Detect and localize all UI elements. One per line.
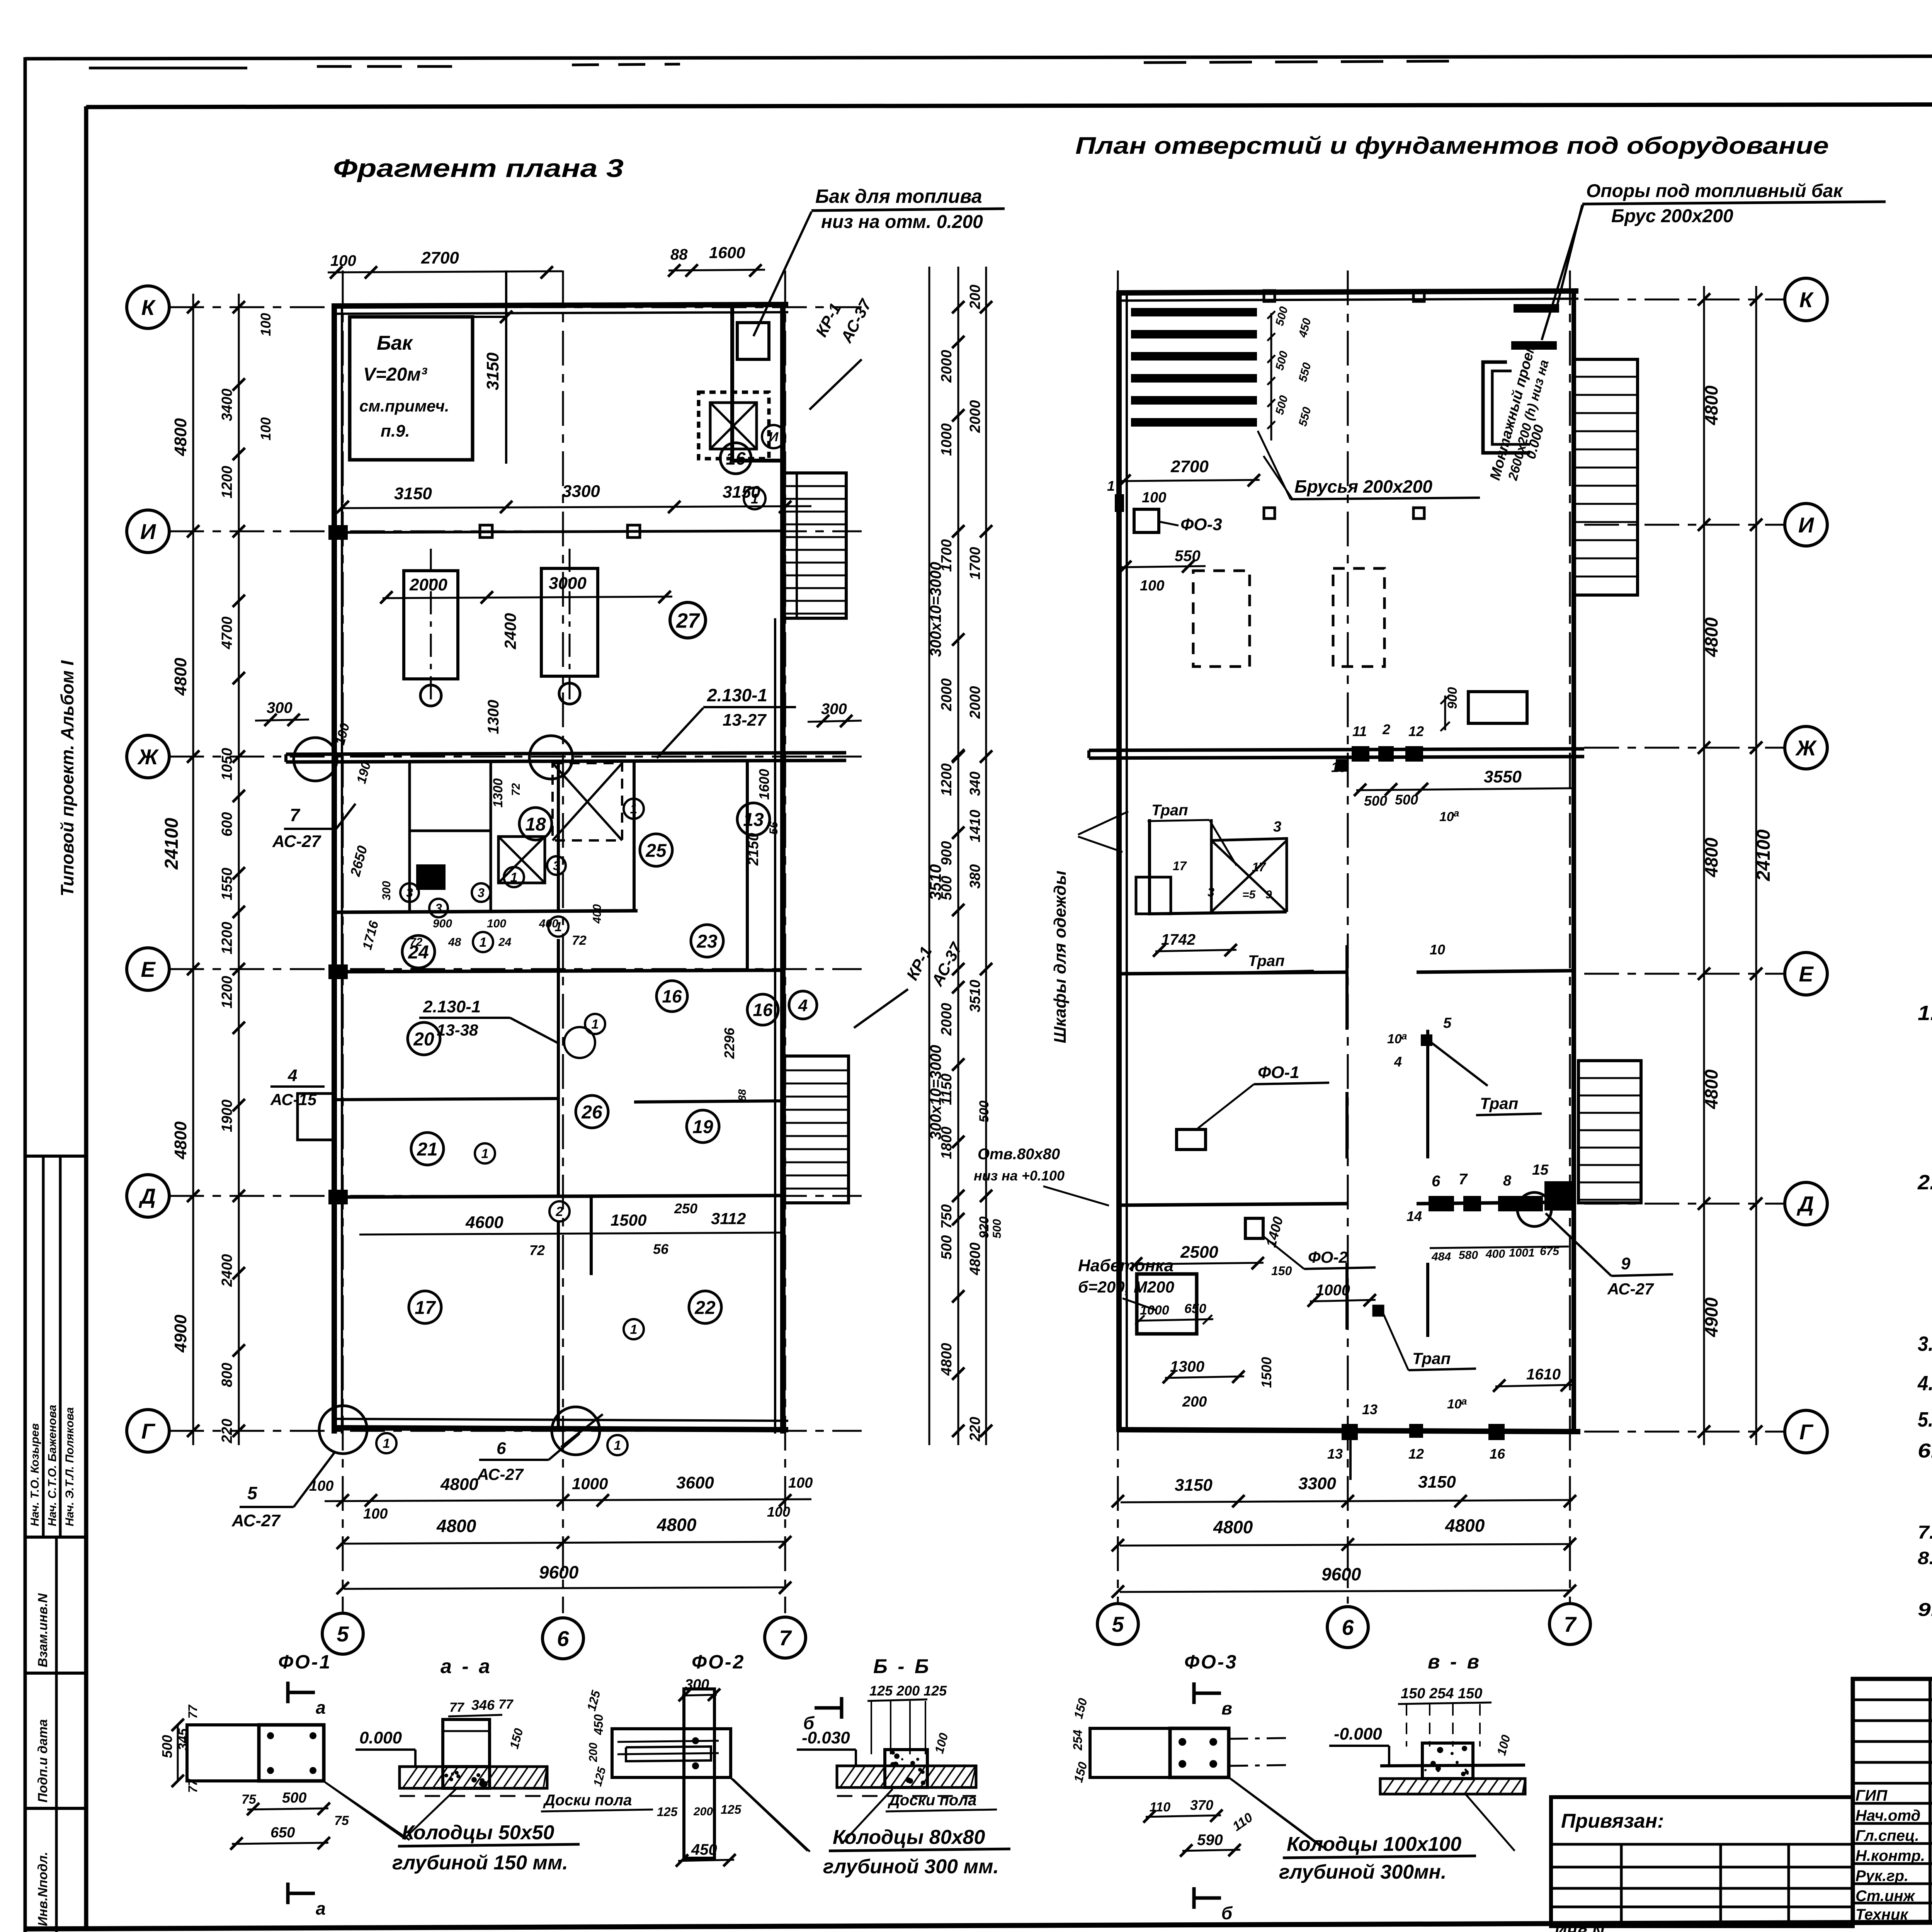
svg-text:500: 500 xyxy=(159,1735,175,1758)
svg-text:б: б xyxy=(1221,1903,1233,1923)
top dim row xyxy=(328,271,562,272)
svg-text:100: 100 xyxy=(487,917,506,930)
svg-text:3: 3 xyxy=(435,901,442,915)
svg-text:1000: 1000 xyxy=(939,423,955,456)
svg-text:25: 25 xyxy=(645,840,667,861)
svg-text:100: 100 xyxy=(258,417,274,440)
svg-text:б: б xyxy=(803,1713,815,1733)
svg-text:ФО-3: ФО-3 xyxy=(1184,1651,1238,1673)
svg-text:=5: =5 xyxy=(1242,888,1256,901)
svg-text:4800: 4800 xyxy=(1213,1517,1253,1537)
svg-text:254: 254 xyxy=(1071,1730,1085,1751)
title block xyxy=(1853,1679,1932,1922)
svg-text:Доски пола: Доски пола xyxy=(888,1792,976,1809)
right plan right-side chains xyxy=(1703,286,1705,1445)
svg-text:низ на +0.100: низ на +0.100 xyxy=(974,1168,1065,1184)
svg-text:125 200 125: 125 200 125 xyxy=(869,1683,947,1699)
svg-text:АС-27: АС-27 xyxy=(477,1465,524,1483)
black wall segments with labels 11 2 12 xyxy=(1353,747,1368,760)
svg-text:15: 15 xyxy=(1532,1162,1549,1178)
svg-text:1200: 1200 xyxy=(219,466,235,498)
svg-text:2: 2 xyxy=(556,1204,563,1219)
svg-text:Ж: Ж xyxy=(137,745,159,769)
500 500 3550 dims xyxy=(1356,788,1573,790)
svg-text:400: 400 xyxy=(591,904,604,924)
svg-text:Бак для топлива: Бак для топлива xyxy=(815,185,982,207)
svg-text:24100: 24100 xyxy=(162,818,182,870)
bottom axis circles 5 6 7 xyxy=(322,1613,363,1654)
svg-text:13: 13 xyxy=(743,810,764,830)
svg-text:4800: 4800 xyxy=(1701,1069,1721,1109)
svg-text:2700: 2700 xyxy=(421,248,459,267)
inner frame top xyxy=(86,104,1932,107)
svg-text:Брус 200х200: Брус 200х200 xyxy=(1611,206,1733,226)
svg-text:3600: 3600 xyxy=(676,1473,714,1492)
опоры bars xyxy=(1515,305,1558,311)
svg-text:920: 920 xyxy=(977,1216,992,1238)
svg-text:4900: 4900 xyxy=(1701,1297,1721,1337)
vertical partition x3486 xyxy=(1345,945,1349,1030)
svg-text:1: 1 xyxy=(481,1146,489,1161)
hatched opening walls xyxy=(699,392,769,459)
svg-text:ФО-2: ФО-2 xyxy=(1308,1248,1348,1266)
svg-text:глубиной 150 мм.: глубиной 150 мм. xyxy=(392,1852,568,1874)
svg-text:1: 1 xyxy=(614,1438,621,1453)
svg-text:К: К xyxy=(1799,287,1814,312)
svg-text:14: 14 xyxy=(1406,1208,1422,1224)
svg-text:a: a xyxy=(1461,1395,1467,1407)
svg-text:300х10=3000: 300х10=3000 xyxy=(927,562,944,657)
svg-text:И: И xyxy=(769,430,779,444)
privyazan box xyxy=(1551,1797,1853,1926)
svg-text:9: 9 xyxy=(1621,1254,1631,1273)
svg-text:АС-27: АС-27 xyxy=(272,832,321,851)
svg-text:5. Работать совместно с ли: 5. Работать совместно с листом АС-4. xyxy=(1918,1408,1932,1431)
svg-text:3150: 3150 xyxy=(1175,1476,1213,1495)
svg-text:Нач.отд: Нач.отд xyxy=(1855,1807,1920,1824)
svg-text:2296: 2296 xyxy=(721,1027,737,1059)
svg-text:17: 17 xyxy=(1173,859,1187,873)
svg-text:1742: 1742 xyxy=(1161,931,1196,948)
svg-text:900: 900 xyxy=(433,917,452,930)
boiler 2 xyxy=(541,568,598,676)
И axis wall stubs xyxy=(334,531,783,532)
svg-text:500: 500 xyxy=(1364,793,1387,809)
left plan middle stairs xyxy=(784,1056,849,1203)
svg-text:500: 500 xyxy=(1395,792,1418,808)
svg-text:580: 580 xyxy=(1459,1249,1478,1262)
svg-text:20: 20 xyxy=(413,1029,434,1049)
2700 dim xyxy=(1121,480,1260,481)
svg-text:8: 8 xyxy=(1503,1173,1512,1189)
svg-text:глубиной 300 мм.: глубиной 300 мм. xyxy=(823,1855,999,1878)
svg-text:Гл.спец.: Гл.спец. xyxy=(1855,1827,1919,1844)
svg-text:75: 75 xyxy=(241,1792,257,1807)
svg-text:10: 10 xyxy=(1447,1397,1462,1412)
svg-text:300: 300 xyxy=(267,699,293,716)
shkafy area rooms xyxy=(1150,819,1287,914)
svg-text:0.000: 0.000 xyxy=(359,1728,402,1747)
svg-text:2.130-1: 2.130-1 xyxy=(707,685,767,705)
bottom dims left plan xyxy=(325,1499,811,1501)
svg-text:2000: 2000 xyxy=(967,686,983,719)
svg-text:23: 23 xyxy=(696,931,718,952)
svg-text:3: 3 xyxy=(1207,885,1214,899)
bottom dims right plan xyxy=(1121,1500,1573,1502)
svg-text:72: 72 xyxy=(529,1242,545,1258)
cross hatch opening at Ж xyxy=(553,763,622,840)
svg-text:24: 24 xyxy=(498,936,512,949)
svg-text:1200: 1200 xyxy=(219,922,235,954)
svg-text:1001: 1001 xyxy=(1509,1247,1535,1259)
svg-text:650: 650 xyxy=(1184,1301,1206,1316)
svg-text:48: 48 xyxy=(448,936,461,949)
svg-text:3: 3 xyxy=(406,886,413,900)
room 27 xyxy=(670,602,706,638)
left plan top stairs xyxy=(784,473,846,618)
right plan top stairs xyxy=(1574,359,1638,595)
svg-text:400: 400 xyxy=(1485,1248,1505,1260)
svg-text:1: 1 xyxy=(510,870,518,885)
svg-text:9600: 9600 xyxy=(539,1562,579,1582)
svg-text:88: 88 xyxy=(736,1089,748,1101)
svg-text:200: 200 xyxy=(587,1743,600,1762)
interior partitions below Ж xyxy=(557,762,560,912)
batten dim ticks xyxy=(1270,313,1272,440)
svg-text:100: 100 xyxy=(330,252,356,269)
svg-text:1: 1 xyxy=(480,935,487,950)
right-side dim chains of left plan xyxy=(929,267,930,1445)
svg-text:3150: 3150 xyxy=(394,484,432,503)
svg-text:1410: 1410 xyxy=(967,810,983,842)
svg-text:27: 27 xyxy=(676,609,701,632)
svg-text:18: 18 xyxy=(525,814,546,835)
svg-text:ФО-2: ФО-2 xyxy=(692,1651,745,1673)
svg-text:5: 5 xyxy=(1112,1612,1124,1636)
svg-text:4600: 4600 xyxy=(465,1213,503,1232)
black segments row 6 7 8 15 xyxy=(1430,1197,1453,1210)
svg-text:6: 6 xyxy=(1432,1173,1440,1190)
svg-text:17: 17 xyxy=(1252,860,1267,874)
svg-text:1500: 1500 xyxy=(611,1211,646,1229)
svg-text:100: 100 xyxy=(788,1475,813,1491)
right plan building xyxy=(1116,291,1122,1432)
svg-text:1: 1 xyxy=(383,1436,390,1451)
svg-text:3300: 3300 xyxy=(562,482,600,501)
stamp boxes xyxy=(25,1155,86,1158)
svg-text:И: И xyxy=(140,519,156,544)
svg-text:56: 56 xyxy=(653,1241,669,1257)
svg-text:100: 100 xyxy=(258,313,274,336)
svg-text:125: 125 xyxy=(721,1803,742,1816)
svg-text:2000: 2000 xyxy=(409,575,447,594)
svg-text:2700: 2700 xyxy=(1170,457,1209,476)
svg-text:7. В гардеробной установить шк: 7. В гардеробной установить шкафы по ГОС… xyxy=(1918,1522,1932,1543)
svg-text:6: 6 xyxy=(497,1439,506,1458)
svg-text:22: 22 xyxy=(694,1298,716,1318)
svg-text:Е: Е xyxy=(141,957,156,981)
svg-text:АС-27: АС-27 xyxy=(1607,1280,1654,1298)
Бак box xyxy=(350,317,473,460)
svg-text:3510: 3510 xyxy=(967,980,983,1012)
svg-text:100: 100 xyxy=(363,1506,388,1522)
svg-text:Типовой проект. Альбом I: Типовой проект. Альбом I xyxy=(57,660,77,896)
svg-text:4: 4 xyxy=(287,1066,297,1085)
svg-text:4800: 4800 xyxy=(436,1516,476,1536)
svg-text:900: 900 xyxy=(939,841,955,866)
svg-text:в: в xyxy=(1221,1698,1232,1718)
svg-text:1000: 1000 xyxy=(572,1475,608,1493)
svg-text:1200: 1200 xyxy=(939,763,955,796)
svg-text:2500: 2500 xyxy=(1180,1243,1218,1262)
svg-text:см.примеч.: см.примеч. xyxy=(359,397,449,415)
svg-text:340: 340 xyxy=(967,772,983,796)
svg-text:100: 100 xyxy=(767,1504,790,1520)
svg-text:2000: 2000 xyxy=(967,400,983,433)
svg-text:220: 220 xyxy=(219,1419,235,1444)
svg-text:200: 200 xyxy=(693,1805,713,1818)
svg-text:800: 800 xyxy=(219,1363,235,1387)
svg-text:a: a xyxy=(1454,807,1459,819)
svg-text:5: 5 xyxy=(1443,1015,1452,1031)
svg-text:1: 1 xyxy=(630,1322,638,1337)
svg-text:200: 200 xyxy=(1182,1394,1207,1410)
svg-text:4800: 4800 xyxy=(440,1475,478,1494)
svg-text:600: 600 xyxy=(219,812,235,837)
svg-text:Доски пола: Доски пола xyxy=(543,1792,632,1809)
svg-text:88: 88 xyxy=(670,246,688,263)
svg-text:3150: 3150 xyxy=(483,352,502,390)
svg-text:7: 7 xyxy=(779,1626,792,1650)
svg-text:500: 500 xyxy=(939,1235,955,1260)
svg-text:1300: 1300 xyxy=(491,778,505,808)
svg-text:4800: 4800 xyxy=(967,1242,983,1276)
svg-text:п.9.: п.9. xyxy=(381,422,410,440)
svg-text:3112: 3112 xyxy=(711,1209,746,1228)
svg-text:380: 380 xyxy=(967,864,983,889)
svg-text:1000: 1000 xyxy=(1316,1282,1350,1299)
svg-text:2000: 2000 xyxy=(939,350,955,383)
svg-text:9600: 9600 xyxy=(1321,1564,1361,1584)
svg-text:V=20м³: V=20м³ xyxy=(363,364,428,385)
svg-text:а: а xyxy=(316,1898,326,1918)
svg-text:Подп.и дата: Подп.и дата xyxy=(36,1719,50,1803)
svg-text:Б - Б: Б - Б xyxy=(873,1655,931,1678)
left plan vertical axes 5 6 7 xyxy=(342,270,344,1613)
right plan vertical axes xyxy=(1117,270,1119,1604)
svg-text:Шкафы для одежды: Шкафы для одежды xyxy=(1051,871,1070,1043)
E axis walls right plan xyxy=(1119,972,1347,974)
svg-text:2: 2 xyxy=(1382,721,1390,737)
svg-text:11: 11 xyxy=(1352,723,1367,739)
frame bottom thick xyxy=(25,1920,1932,1929)
svg-text:72: 72 xyxy=(572,933,587,948)
left plan axis circles xyxy=(127,286,169,328)
svg-text:346: 346 xyxy=(471,1697,495,1713)
svg-text:220: 220 xyxy=(967,1417,983,1442)
svg-text:75: 75 xyxy=(334,1813,349,1828)
svg-text:9: 9 xyxy=(1265,888,1272,901)
svg-text:низ на отм. 0.200: низ на отм. 0.200 xyxy=(821,212,983,232)
Ж thick wall right plan xyxy=(1089,749,1584,750)
svg-text:ГИП: ГИП xyxy=(1855,1787,1888,1804)
opening near top right (монтажный проем) xyxy=(1483,362,1530,453)
left vertical dim chains xyxy=(192,294,194,1445)
svg-text:77: 77 xyxy=(498,1697,514,1712)
svg-text:Трап: Трап xyxy=(1248,952,1285,969)
svg-text:125: 125 xyxy=(657,1805,678,1819)
svg-text:10: 10 xyxy=(1387,1032,1402,1046)
room circles xyxy=(519,808,552,840)
svg-text:И: И xyxy=(1798,513,1815,537)
svg-text:3: 3 xyxy=(553,859,560,873)
Ж thick wall xyxy=(286,753,846,754)
battens top-left (брусья) xyxy=(1132,309,1256,315)
svg-text:100: 100 xyxy=(309,1478,333,1494)
big detail circles on bottom wall xyxy=(319,1406,367,1454)
svg-text:1: 1 xyxy=(630,802,638,816)
svg-text:100: 100 xyxy=(1140,578,1164,594)
svg-text:100: 100 xyxy=(1142,490,1166,506)
svg-text:1150: 1150 xyxy=(939,1073,955,1105)
2000 3000 dim xyxy=(383,597,672,598)
svg-text:глубиной 300мн.: глубиной 300мн. xyxy=(1279,1861,1446,1883)
svg-text:4800: 4800 xyxy=(1701,617,1721,657)
svg-text:3150: 3150 xyxy=(723,483,760,502)
svg-text:3150: 3150 xyxy=(1418,1473,1456,1492)
svg-text:370: 370 xyxy=(1190,1797,1213,1813)
svg-text:1: 1 xyxy=(592,1017,599,1032)
svg-text:Взам.инв.N: Взам.инв.N xyxy=(36,1593,50,1667)
svg-text:150: 150 xyxy=(1271,1264,1292,1278)
svg-text:а: а xyxy=(316,1697,326,1718)
svg-text:б=200, М200: б=200, М200 xyxy=(1078,1278,1174,1296)
svg-text:2. Щитовые перегородки выполня: 2. Щитовые перегородки выполняются из де… xyxy=(1917,1171,1932,1194)
svg-text:1600: 1600 xyxy=(709,243,745,262)
svg-text:2150: 2150 xyxy=(745,833,762,866)
svg-text:1900: 1900 xyxy=(219,1099,235,1132)
svg-text:2000: 2000 xyxy=(939,1003,955,1036)
svg-text:a: a xyxy=(1401,1030,1407,1042)
outer border left xyxy=(24,57,27,1932)
svg-text:Трап: Трап xyxy=(1412,1349,1451,1367)
svg-text:АС-27: АС-27 xyxy=(231,1511,281,1530)
svg-text:5: 5 xyxy=(247,1483,258,1503)
svg-text:500: 500 xyxy=(282,1790,306,1806)
svg-text:1300: 1300 xyxy=(485,700,502,734)
svg-text:5: 5 xyxy=(337,1622,349,1646)
svg-text:200: 200 xyxy=(967,285,983,310)
svg-text:7: 7 xyxy=(290,805,301,825)
svg-text:56: 56 xyxy=(767,821,780,835)
dims under Д wall xyxy=(1430,1247,1569,1248)
svg-text:Трап: Трап xyxy=(1480,1094,1518,1112)
svg-text:4. Опоры под топливный бак: 4. Опоры под топливный бак выполнить по … xyxy=(1917,1372,1932,1395)
svg-text:1: 1 xyxy=(1107,478,1115,494)
svg-text:4: 4 xyxy=(1394,1054,1402,1070)
svg-text:ФО-1: ФО-1 xyxy=(278,1651,332,1673)
svg-text:Отв.80х80: Отв.80х80 xyxy=(978,1146,1060,1163)
svg-text:450: 450 xyxy=(592,1714,605,1735)
svg-text:7: 7 xyxy=(1459,1171,1468,1188)
svg-text:21: 21 xyxy=(417,1139,437,1160)
boiler 1 xyxy=(404,571,458,679)
svg-text:2.130-1: 2.130-1 xyxy=(423,997,481,1016)
svg-text:4700: 4700 xyxy=(219,616,235,650)
svg-text:Нач. С.Т.О. Баженова: Нач. С.Т.О. Баженова xyxy=(46,1405,59,1526)
svg-text:Опоры под топливный бак: Опоры под топливный бак xyxy=(1586,181,1844,201)
svg-text:150 254 150: 150 254 150 xyxy=(1401,1685,1482,1702)
svg-text:Е: Е xyxy=(1799,962,1814,986)
svg-text:500: 500 xyxy=(991,1219,1003,1238)
svg-text:300: 300 xyxy=(821,701,847,718)
svg-text:4800: 4800 xyxy=(939,1343,955,1376)
svg-text:16: 16 xyxy=(1490,1446,1505,1462)
svg-text:Н.контр.: Н.контр. xyxy=(1855,1847,1925,1864)
svg-text:7: 7 xyxy=(1564,1612,1577,1636)
svg-text:2400: 2400 xyxy=(501,613,519,650)
svg-text:4800: 4800 xyxy=(171,1121,190,1160)
svg-text:17: 17 xyxy=(415,1298,436,1318)
inner frame left xyxy=(84,106,88,1930)
svg-text:Фрагмент плана 3: Фрагмент плана 3 xyxy=(333,154,624,182)
svg-text:6. Фундаменты ФО-1, ФО-2, ФО: 6. Фундаменты ФО-1, ФО-2, ФО-3 из бетона… xyxy=(1918,1440,1932,1462)
svg-text:16: 16 xyxy=(662,986,682,1007)
small pos circles 1 xyxy=(624,799,644,819)
svg-text:750: 750 xyxy=(939,1204,955,1229)
svg-text:2000: 2000 xyxy=(939,678,955,711)
svg-text:Инв.N: Инв.N xyxy=(1554,1922,1605,1932)
small column squares xyxy=(1264,508,1275,519)
svg-text:400: 400 xyxy=(539,917,558,930)
svg-text:3: 3 xyxy=(478,886,485,900)
svg-text:72: 72 xyxy=(410,936,423,949)
svg-text:Д: Д xyxy=(139,1184,156,1208)
svg-text:-0.000: -0.000 xyxy=(1334,1725,1382,1743)
svg-text:3550: 3550 xyxy=(1484,767,1522,786)
svg-text:4800: 4800 xyxy=(171,658,190,696)
svg-text:10: 10 xyxy=(1439,810,1454,824)
svg-text:Д: Д xyxy=(1797,1192,1814,1216)
svg-text:Техник: Техник xyxy=(1855,1906,1908,1923)
svg-text:500: 500 xyxy=(939,876,955,900)
svg-text:72: 72 xyxy=(510,783,522,796)
svg-text:77: 77 xyxy=(449,1700,465,1715)
svg-text:Колодцы 100х100: Колодцы 100х100 xyxy=(1287,1833,1461,1855)
svg-text:Г: Г xyxy=(141,1419,156,1443)
svg-text:План отверстий и фундаментов: План отверстий и фундаментов под оборудо… xyxy=(1075,133,1829,159)
svg-text:4: 4 xyxy=(798,996,808,1015)
lower margin labels xyxy=(25,1672,86,1675)
svg-text:1550: 1550 xyxy=(219,867,235,900)
left plan horizontal axis dash-dot lines xyxy=(169,306,862,308)
svg-text:24100: 24100 xyxy=(1753,829,1774,881)
svg-text:а - а: а - а xyxy=(440,1655,492,1678)
svg-text:484: 484 xyxy=(1431,1250,1451,1263)
svg-text:16: 16 xyxy=(726,449,746,469)
svg-text:9. Стальной бак для воды V: 9. Стальной бак для воды V=20м³ изготавл… xyxy=(1918,1600,1932,1620)
svg-text:3: 3 xyxy=(1273,819,1281,835)
svg-text:13: 13 xyxy=(1362,1401,1378,1417)
svg-text:500: 500 xyxy=(977,1100,992,1122)
svg-text:2400: 2400 xyxy=(219,1254,235,1287)
svg-text:450: 450 xyxy=(691,1841,717,1858)
svg-text:4800: 4800 xyxy=(1701,385,1721,425)
svg-text:Брусья 200х200: Брусья 200х200 xyxy=(1294,476,1432,497)
svg-text:Нач. Э.Т.Л. Полякова: Нач. Э.Т.Л. Полякова xyxy=(63,1407,76,1526)
svg-text:4800: 4800 xyxy=(1445,1515,1485,1536)
svg-text:ФО-3: ФО-3 xyxy=(1180,515,1222,534)
